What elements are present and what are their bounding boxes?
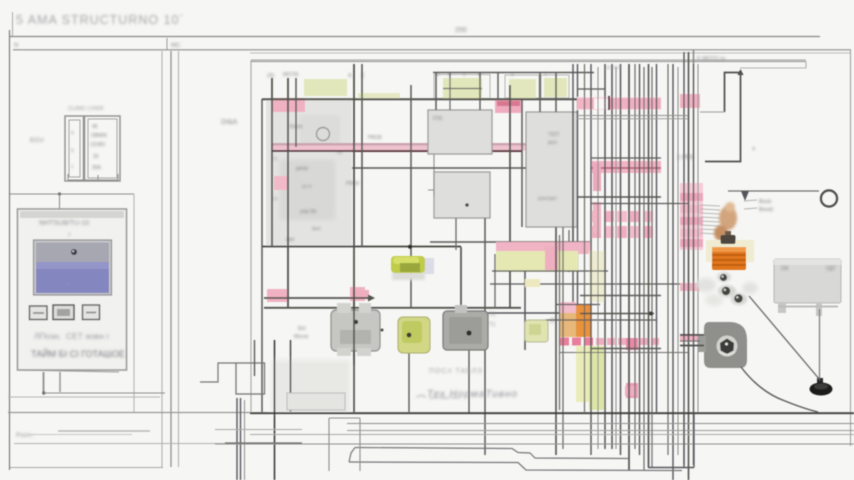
svg-text:Об: Об bbox=[781, 266, 788, 272]
vertical wire v510 bbox=[509, 85, 511, 308]
bundle wire 17 bbox=[677, 67, 679, 455]
strong pink pair right bbox=[626, 338, 638, 350]
table outline bbox=[65, 116, 120, 181]
rule y61 bbox=[251, 61, 806, 63]
box left edge bbox=[693, 50, 695, 64]
tap y348 bbox=[591, 348, 661, 350]
wire wrap blob bbox=[714, 202, 737, 241]
title bracket tick bbox=[12, 12, 14, 36]
washer blobs bbox=[696, 278, 716, 292]
tap y313 with node bbox=[580, 313, 654, 315]
vertical wire v411 bbox=[410, 85, 412, 308]
vertical wire v563 bbox=[562, 227, 564, 449]
vertical wire v559 bbox=[559, 235, 561, 410]
bundle wire 6 bbox=[615, 67, 617, 449]
bundle wire 21 bbox=[697, 64, 699, 412]
divider bbox=[83, 116, 85, 181]
connector shell 3 bbox=[505, 75, 539, 98]
yellow terminal strip 1 bbox=[304, 79, 347, 96]
main dark bus y413 bbox=[250, 412, 854, 414]
gray smudge bbox=[272, 360, 350, 413]
connector pink block P6 bbox=[495, 99, 522, 113]
svg-text:Мосж: Мосж bbox=[294, 334, 309, 340]
cream column bbox=[589, 251, 605, 302]
svg-text:БН: БН bbox=[298, 326, 306, 332]
tap pair y116 bbox=[577, 115, 688, 117]
bundle wire 1 bbox=[584, 64, 586, 412]
svg-text:РМ1В: РМ1В bbox=[368, 135, 382, 141]
ring terminal bbox=[821, 191, 837, 207]
panel top wire bbox=[10, 193, 134, 195]
cable-run staircase bbox=[349, 448, 682, 471]
svg-text:︵Тех НормаТивно: ︵Тех НормаТивно bbox=[416, 389, 518, 400]
tap y203 bbox=[591, 203, 688, 205]
svg-text:Boost: Boost bbox=[759, 207, 774, 213]
bus y430.5 bbox=[347, 430, 854, 432]
tap stub y112 bbox=[700, 111, 725, 113]
svg-text:A: A bbox=[348, 73, 352, 79]
main diagram frame bbox=[221, 60, 806, 412]
pink bus band A (y144) bbox=[271, 143, 577, 151]
tap y352 bbox=[560, 352, 688, 354]
wire bus y307 bbox=[264, 307, 521, 309]
svg-text:.·.: .·. bbox=[66, 281, 70, 287]
timer control unit bbox=[10, 192, 165, 412]
vertical wire v469 bbox=[468, 350, 470, 413]
connector pass wire bbox=[443, 88, 482, 90]
vertical wire v485 bbox=[484, 218, 486, 455]
panel right edge bbox=[133, 194, 135, 412]
right col inner bbox=[88, 119, 117, 178]
pale yellow-green band y251 bbox=[496, 251, 578, 271]
vertical wire v296 bbox=[295, 78, 297, 147]
bottom relay K2 bbox=[443, 305, 488, 350]
probe tip bbox=[741, 191, 749, 201]
pink band A dark line bbox=[271, 150, 522, 152]
vertical stub v498 bbox=[497, 73, 499, 100]
display upper gray bbox=[36, 243, 109, 263]
svg-text:K MOTO гр: K MOTO гр bbox=[697, 56, 725, 62]
relay circle bbox=[317, 128, 330, 141]
svg-text:рел: рел bbox=[548, 140, 557, 146]
relay box C bbox=[526, 112, 577, 227]
bundle wire 8 bbox=[628, 64, 630, 470]
svg-text:DI&A: DI&A bbox=[221, 119, 238, 126]
svg-text:упр бл: упр бл bbox=[300, 209, 316, 215]
bundle wire 4 bbox=[604, 64, 606, 449]
wire bus y247 bbox=[262, 246, 461, 248]
vertical wire v573 bbox=[572, 64, 574, 306]
rule y68 bbox=[740, 67, 806, 69]
display dot bbox=[71, 249, 77, 255]
display bezel bbox=[34, 240, 112, 295]
svg-text:А1: А1 bbox=[272, 156, 278, 161]
frame left edge bbox=[250, 60, 252, 412]
connector shell 2 bbox=[434, 75, 490, 99]
pale yellow band lower bbox=[576, 346, 604, 402]
note rule bbox=[58, 430, 150, 432]
rule d bbox=[10, 467, 163, 469]
box around x327 bbox=[329, 418, 360, 471]
bottom switch S1 bbox=[331, 300, 384, 365]
svg-text:Т1: Т1 bbox=[489, 322, 495, 328]
svg-text:ПОСл ТАБЛЗ: ПОСл ТАБЛЗ bbox=[429, 368, 483, 375]
top-right detail box bbox=[677, 50, 756, 162]
svg-text:ТЕП: ТЕП bbox=[548, 132, 559, 138]
box A-B link bbox=[428, 154, 434, 196]
riser x274 bbox=[274, 340, 276, 480]
svg-text:Т2: Т2 bbox=[489, 312, 495, 318]
vertical wire v362 bbox=[361, 64, 363, 247]
bundle wire 16 bbox=[672, 64, 674, 480]
svg-text:ДТ: ДТ bbox=[550, 318, 556, 324]
vertical wire v569 bbox=[568, 230, 570, 272]
dark sub y443 bbox=[225, 442, 302, 444]
pump motor M1 bbox=[698, 322, 747, 368]
svg-text:CLINIC LIVER: CLINIC LIVER bbox=[68, 106, 103, 112]
cluster taps bbox=[490, 271, 688, 320]
right border bbox=[850, 50, 852, 446]
svg-text:Pozn.:: Pozn.: bbox=[16, 432, 35, 439]
svg-text:Buck: Buck bbox=[759, 199, 771, 205]
svg-text:12UB2: 12UB2 bbox=[90, 142, 106, 148]
rail 3 bbox=[178, 51, 180, 467]
rule c bbox=[14, 443, 250, 445]
gray block above bus bbox=[287, 393, 345, 410]
bottom sensor pale bbox=[525, 320, 548, 342]
rail 1 bbox=[161, 51, 163, 467]
vertical wire v556b bbox=[555, 227, 557, 455]
wire y242 bbox=[430, 241, 590, 243]
bus y423 bbox=[347, 423, 854, 425]
pink band over riser bbox=[496, 242, 590, 254]
vertical stub v436 bbox=[435, 73, 437, 110]
svg-text:o: o bbox=[68, 232, 71, 238]
vertical wire v272 bbox=[271, 78, 273, 247]
bundle wire 15 bbox=[667, 64, 669, 455]
bundle wire 19 bbox=[688, 52, 690, 480]
wire bus y107 right bbox=[577, 106, 661, 108]
bundle wire 14 bbox=[656, 64, 658, 412]
bottom riser pair bbox=[200, 340, 291, 480]
left column rails bbox=[162, 51, 179, 467]
bundle wire 20 bbox=[693, 50, 695, 465]
left col inner bbox=[69, 120, 80, 177]
pink step block bbox=[545, 246, 558, 270]
buck boost labels bbox=[744, 199, 774, 213]
vertical wire v262 bbox=[261, 99, 263, 412]
vertical wire v288 bbox=[287, 78, 289, 308]
pink sliver 2 bbox=[593, 202, 601, 233]
probe line to ring terminal bbox=[728, 191, 837, 207]
connector pink block P3 bbox=[267, 289, 289, 302]
bottom small box bbox=[236, 340, 265, 394]
ECU cluster block bbox=[266, 72, 382, 246]
mid rule y429 bbox=[215, 429, 302, 431]
vertical stub v556 bbox=[555, 73, 557, 112]
vertical wire v354 bbox=[353, 64, 355, 412]
bottom-left note rules bbox=[8, 397, 250, 468]
vertical stub v450 bbox=[449, 73, 451, 110]
terminal block table bbox=[30, 106, 120, 181]
button 2 bbox=[53, 305, 74, 320]
svg-text:N: N bbox=[14, 43, 18, 49]
connector pink block P5 bbox=[352, 290, 369, 299]
wire loop: riser bbox=[705, 73, 741, 162]
svg-text:30A: 30A bbox=[92, 165, 102, 171]
pink band sliver right of box C bbox=[593, 163, 601, 191]
coil body bbox=[712, 247, 746, 270]
svg-text:5 AMA STRUCTURNO 10´: 5 AMA STRUCTURNO 10´ bbox=[16, 13, 185, 27]
cluster inner smudges bbox=[280, 160, 335, 220]
timer body bbox=[18, 209, 127, 370]
connector shell 4 bbox=[541, 75, 569, 98]
yellow sliver bbox=[358, 93, 400, 98]
tap y196 bbox=[577, 196, 661, 198]
arrowhead bbox=[737, 69, 743, 75]
rail 2 bbox=[170, 51, 172, 467]
mounting screws bbox=[696, 272, 758, 306]
bus y434 bbox=[250, 434, 854, 436]
wire over box C bbox=[572, 112, 574, 250]
tap y89 bbox=[577, 88, 605, 90]
connector pink block P4 bbox=[350, 287, 365, 301]
frame top edge bbox=[251, 59, 806, 61]
yellow terminal strip 3 bbox=[509, 79, 536, 98]
svg-text:b: b bbox=[71, 148, 74, 154]
svg-text:ECU: ECU bbox=[30, 137, 44, 144]
svg-text:a: a bbox=[71, 130, 74, 136]
vertical wire v461 bbox=[460, 247, 462, 312]
node dot bbox=[58, 192, 61, 195]
relay box A bbox=[428, 110, 492, 154]
svg-text:А2: А2 bbox=[272, 196, 278, 201]
tap y158 bbox=[591, 157, 661, 159]
svg-text:реле: реле bbox=[296, 166, 308, 172]
svg-text:МУЛУА: МУЛУА bbox=[606, 65, 621, 70]
pale green lower part bbox=[589, 346, 604, 410]
rule a bbox=[8, 396, 160, 398]
svg-text:NHTSUB/TU-10: NHTSUB/TU-10 bbox=[39, 220, 89, 227]
connector pink block P2 bbox=[274, 176, 287, 190]
small tee box left bbox=[200, 363, 236, 382]
bundle horizontal taps bbox=[560, 89, 688, 353]
bottom sensor green bbox=[398, 317, 430, 353]
bundle wire 11 bbox=[643, 67, 645, 470]
svg-text:46: 46 bbox=[92, 124, 98, 130]
suction foot bbox=[810, 378, 833, 396]
riser x290 with turn bbox=[290, 340, 292, 412]
pink connector stack left of motor bbox=[680, 94, 703, 341]
svg-text:(A): (A) bbox=[267, 73, 275, 79]
pink bus band B (x577 y97) bbox=[577, 96, 661, 110]
junction dot bbox=[42, 391, 45, 394]
orange connector block bbox=[576, 304, 591, 337]
vertical wire v409 bbox=[408, 353, 410, 412]
bundle wire 18 bbox=[683, 52, 685, 465]
long bus y412 bbox=[8, 412, 250, 414]
bundle wire 7 bbox=[620, 64, 622, 455]
knob bbox=[725, 231, 731, 237]
svg-text:25: 25 bbox=[93, 154, 99, 160]
svg-text:MC: MC bbox=[171, 43, 181, 49]
diagonal link wire bbox=[749, 296, 820, 380]
left border bbox=[9, 30, 11, 470]
bundle wire 5 bbox=[611, 64, 613, 449]
bundle wire 3 bbox=[597, 67, 599, 449]
svg-text:вых: вых bbox=[312, 226, 321, 232]
button 3 bbox=[83, 305, 100, 320]
long bottom bus bbox=[215, 413, 854, 444]
bus y444 bbox=[215, 443, 854, 445]
rule y53 bbox=[250, 52, 850, 54]
wire x525 drop bbox=[524, 268, 526, 350]
connector pink block P1 bbox=[273, 98, 305, 112]
top rule 1 bbox=[10, 36, 820, 38]
svg-text:контакт: контакт bbox=[538, 196, 558, 202]
bundle wire 12 bbox=[648, 64, 650, 467]
bundle wire 2 bbox=[590, 64, 592, 455]
svg-text:MOTA: MOTA bbox=[283, 72, 299, 78]
control module box bbox=[774, 259, 841, 316]
yellow terminal strip 2 bbox=[443, 78, 482, 99]
button 1 bbox=[30, 306, 48, 320]
motor feed wires bbox=[680, 335, 704, 346]
bundle wire 10 bbox=[639, 64, 641, 455]
svg-text:РМ18: РМ18 bbox=[346, 181, 359, 187]
staircase bottom right verts bbox=[648, 413, 694, 468]
bundle wire 9 bbox=[634, 64, 636, 449]
svg-text:200: 200 bbox=[455, 27, 467, 34]
wire y313 right of K2 bbox=[488, 312, 560, 314]
drain hose curve bbox=[741, 367, 818, 412]
timer header band bbox=[20, 211, 124, 218]
svg-text:ТАЙМ БI СI ГОТАШОЕ: ТАЙМ БI СI ГОТАШОЕ bbox=[31, 348, 125, 359]
svg-text:F05: F05 bbox=[433, 116, 442, 122]
svg-text:ГДТ: ГДТ bbox=[826, 266, 836, 272]
vertical wire v495 bbox=[494, 254, 496, 308]
pink block above tan bbox=[560, 302, 576, 315]
wire bus y297 with arrow bbox=[264, 297, 370, 299]
pink bus band C (y161) bbox=[591, 161, 661, 173]
wire top bus (y72) bbox=[433, 72, 594, 74]
stub wires below bbox=[43, 372, 45, 393]
wire bus y100 bbox=[262, 98, 594, 100]
drop wire bbox=[59, 194, 61, 209]
vertical wire v522 bbox=[521, 99, 523, 227]
cluster body bbox=[266, 100, 352, 246]
lead fan wires bbox=[700, 205, 720, 234]
timer bottom inner rule bbox=[18, 370, 120, 372]
bright green indicator bbox=[391, 245, 434, 280]
cream tag bbox=[525, 279, 540, 287]
vertical wire v456 bbox=[455, 218, 457, 250]
display lower purple bbox=[36, 262, 109, 293]
display mid lighter bbox=[36, 262, 109, 269]
bus wire to rails bbox=[44, 392, 165, 394]
svg-text:ЛПозн. СЕТ аовн г: ЛПозн. СЕТ аовн г bbox=[34, 331, 109, 341]
wire bus y166 bbox=[352, 167, 526, 169]
top rule 2 bbox=[13, 49, 851, 51]
vertical wire v577 bbox=[577, 64, 579, 306]
bundle wire 13 bbox=[651, 67, 653, 467]
svg-text:кл 4: кл 4 bbox=[302, 184, 312, 190]
relay box B bbox=[434, 172, 490, 218]
vertical stub v540 bbox=[539, 73, 541, 112]
tan block bbox=[560, 313, 576, 337]
module drop wire bbox=[819, 309, 821, 381]
pink dash row y338 bbox=[560, 338, 593, 346]
transformer T1 bbox=[706, 231, 754, 270]
svg-text:OBWN: OBWN bbox=[91, 133, 107, 139]
cream base bbox=[706, 240, 754, 262]
tap y295 bbox=[580, 295, 661, 297]
svg-text:1 РВЗ: 1 РВЗ bbox=[677, 155, 694, 161]
table bottom bracket bbox=[68, 174, 118, 180]
pink block mid riser bbox=[625, 386, 636, 396]
yellow terminal strip 4 bbox=[544, 78, 567, 97]
vertical stub v480 bbox=[479, 73, 481, 110]
wire bundle verticals bbox=[585, 50, 699, 480]
tick bbox=[166, 38, 168, 50]
pink connector rows D bbox=[592, 211, 653, 238]
